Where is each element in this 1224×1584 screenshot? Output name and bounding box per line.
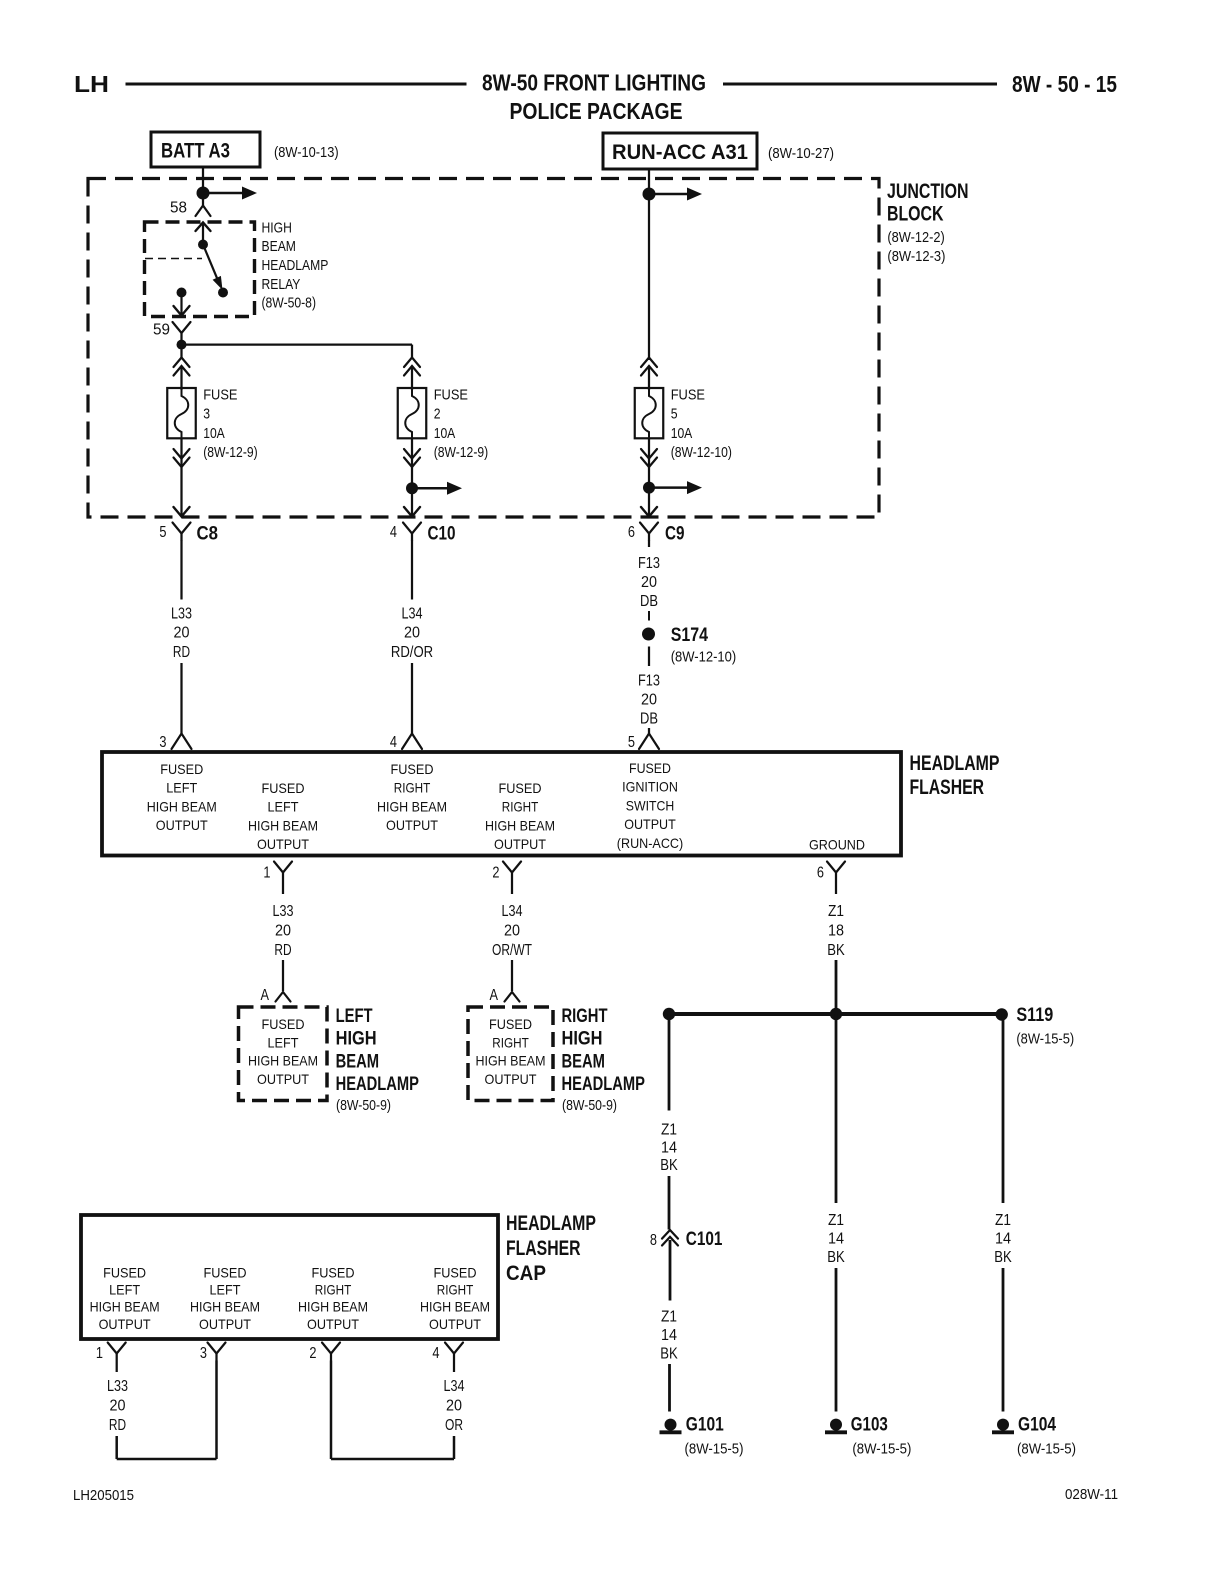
svg-text:FLASHER: FLASHER (506, 1237, 581, 1260)
header page number (1012, 71, 1117, 97)
wire label F13 20 DB upper (638, 555, 660, 610)
flasher pin 2 (492, 862, 521, 882)
bus dot left (663, 1008, 675, 1020)
svg-text:6: 6 (817, 865, 824, 882)
svg-text:20: 20 (446, 1398, 462, 1415)
svg-text:20: 20 (275, 923, 291, 940)
wire down to fuse 3 (180, 345, 182, 359)
right headlamp dashed box (468, 1007, 553, 1101)
svg-text:OUTPUT: OUTPUT (257, 836, 309, 852)
svg-text:5: 5 (628, 734, 635, 751)
cap pin 4 (432, 1343, 463, 1363)
svg-text:HIGH BEAM: HIGH BEAM (420, 1299, 490, 1315)
footer drawing number (1065, 1486, 1118, 1503)
svg-text:10A: 10A (434, 425, 456, 442)
svg-text:HIGH BEAM: HIGH BEAM (248, 817, 318, 833)
svg-text:4: 4 (390, 524, 397, 541)
header rule left (126, 83, 467, 86)
svg-text:A: A (261, 987, 270, 1004)
wire above S174 (648, 611, 650, 621)
wire chevrons to fuse 3 (180, 367, 182, 391)
svg-text:FUSED: FUSED (262, 780, 305, 796)
wire C8 down (180, 540, 182, 600)
svg-text:L34: L34 (444, 1378, 465, 1395)
header rule right (723, 83, 997, 86)
svg-text:OUTPUT: OUTPUT (494, 836, 546, 852)
cap pin 2 (309, 1343, 340, 1363)
wire pin6 down (835, 880, 837, 895)
wire label L33 20 RD lower (273, 903, 294, 959)
svg-text:DB: DB (640, 711, 658, 728)
svg-text:8W-50 FRONT LIGHTING: 8W-50 FRONT LIGHTING (482, 70, 706, 96)
svg-text:HIGH BEAM: HIGH BEAM (377, 798, 447, 814)
svg-text:(8W-12-9): (8W-12-9) (434, 444, 489, 461)
svg-text:59: 59 (153, 322, 170, 339)
wire to G104 (1002, 1268, 1005, 1412)
cap wire pin4 upper (453, 1361, 455, 1373)
svg-text:HIGH: HIGH (562, 1029, 603, 1050)
wire C9 down (648, 540, 650, 547)
svg-text:BK: BK (827, 942, 845, 959)
wire label Z1 14 BK lower left (660, 1309, 678, 1363)
svg-text:HIGH BEAM: HIGH BEAM (485, 817, 555, 833)
relay output pin dot (177, 288, 187, 298)
arrow feed at C9 (649, 481, 702, 494)
junction block dashed outline (88, 179, 879, 518)
wire label L34 20 RD/OR (391, 606, 433, 661)
svg-text:(8W-50-9): (8W-50-9) (562, 1097, 617, 1114)
arrow feed other circuits top left (203, 187, 257, 200)
wire BATT A3 to node 58 (202, 167, 204, 206)
flasher pin1 label (248, 780, 318, 852)
headlamp flasher cap label (506, 1212, 596, 1285)
pin 58 connector (196, 206, 211, 217)
svg-text:LH205015: LH205015 (73, 1487, 134, 1504)
svg-text:LH: LH (74, 71, 109, 97)
svg-text:CAP: CAP (506, 1262, 546, 1285)
wire label Z1 14 BK right (994, 1212, 1012, 1266)
svg-text:OUTPUT: OUTPUT (199, 1316, 251, 1332)
svg-text:G101: G101 (686, 1414, 724, 1435)
svg-text:L34: L34 (502, 903, 523, 920)
cap jumper 1-3 horizontal (117, 1458, 217, 1461)
svg-text:A: A (490, 987, 499, 1004)
wire to C101 (668, 1176, 671, 1230)
wire fuse5 to C9 (641, 467, 657, 517)
svg-text:028W-11: 028W-11 (1065, 1486, 1118, 1503)
cap pin1 label (90, 1264, 160, 1332)
relay common contact dot (198, 240, 208, 250)
ground bus S119 (669, 1012, 1003, 1016)
node junction dot at 58 (197, 187, 210, 200)
svg-text:8W - 50 - 15: 8W - 50 - 15 (1012, 71, 1117, 97)
headlamp flasher box (102, 752, 901, 856)
wire label L33 20 RD (171, 606, 192, 661)
svg-text:(8W-15-5): (8W-15-5) (1016, 1031, 1074, 1048)
svg-text:FUSE: FUSE (203, 386, 237, 403)
node junction dot RUN-ACC (643, 188, 656, 201)
wire 59 junction horizontal (182, 343, 413, 345)
svg-text:L33: L33 (107, 1378, 128, 1395)
svg-text:RIGHT: RIGHT (315, 1282, 352, 1298)
wire pin6 to bus (835, 960, 838, 1014)
pin 4 connector (390, 734, 422, 752)
svg-text:DB: DB (640, 593, 658, 610)
wire continuation chevrons below fuse 2 (404, 449, 420, 467)
left headlamp dashed box (239, 1007, 328, 1101)
wire C10 down (411, 540, 413, 600)
svg-text:RELAY: RELAY (262, 276, 301, 293)
svg-text:FUSED: FUSED (434, 1264, 477, 1280)
pin 3 connector (159, 734, 191, 752)
wire chevrons to fuse 2 (411, 367, 413, 391)
svg-text:G103: G103 (851, 1414, 888, 1435)
svg-text:BEAM: BEAM (262, 238, 296, 255)
power feed box BATT A3 (151, 132, 260, 167)
svg-text:(8W-12-10): (8W-12-10) (671, 649, 737, 666)
wire bus down middle (835, 1014, 838, 1203)
wire continuation chevrons below fuse 5 (641, 449, 657, 467)
wire label Z1 18 BK (827, 903, 845, 959)
svg-text:Z1: Z1 (661, 1122, 677, 1139)
right headlamp box label (476, 1016, 546, 1087)
svg-text:HEADLAMP: HEADLAMP (506, 1212, 596, 1235)
reference (8W-10-13) (274, 144, 339, 161)
cap pin2 label (298, 1264, 368, 1332)
svg-text:FUSED: FUSED (499, 780, 542, 796)
svg-text:HIGH: HIGH (336, 1029, 377, 1050)
svg-text:Z1: Z1 (661, 1309, 677, 1326)
svg-text:14: 14 (661, 1139, 677, 1156)
bus dot middle (830, 1008, 842, 1020)
svg-text:Z1: Z1 (995, 1212, 1011, 1229)
wire RUN-ACC down (648, 169, 650, 360)
svg-text:HEADLAMP: HEADLAMP (910, 752, 1000, 775)
wire to left headlamp (282, 960, 284, 991)
relay dashed box (145, 222, 255, 317)
wire bus down left (668, 1014, 671, 1111)
wire label Z1 14 BK upper left (660, 1122, 678, 1175)
pin 58 label (170, 200, 187, 217)
arrow feed other circuits RUN (649, 188, 702, 201)
svg-text:C10: C10 (428, 524, 456, 545)
svg-text:(8W-10-13): (8W-10-13) (274, 144, 339, 161)
svg-text:20: 20 (641, 692, 657, 709)
svg-text:4: 4 (390, 734, 397, 751)
svg-text:OUTPUT: OUTPUT (156, 817, 208, 833)
cap pin4 label (420, 1264, 490, 1332)
svg-text:(8W-12-2): (8W-12-2) (887, 229, 944, 246)
svg-text:OUTPUT: OUTPUT (257, 1071, 309, 1087)
svg-text:RIGHT: RIGHT (437, 1282, 474, 1298)
svg-text:4: 4 (432, 1345, 439, 1362)
node dot above C10 (406, 482, 418, 494)
footer sheet code (73, 1487, 134, 1504)
svg-text:3: 3 (159, 734, 166, 751)
header title line 1 (482, 70, 706, 96)
wire chevrons to fuse 5 (648, 367, 650, 391)
headlamp flasher cap box (81, 1215, 498, 1339)
svg-text:RIGHT: RIGHT (502, 799, 539, 815)
flasher pin 1 (263, 862, 292, 882)
svg-text:BLOCK: BLOCK (887, 203, 944, 226)
svg-text:POLICE PACKAGE: POLICE PACKAGE (510, 98, 683, 124)
fuse F5 (635, 388, 664, 438)
svg-text:5: 5 (671, 406, 678, 423)
ground G103 (825, 1414, 911, 1457)
svg-text:FUSED: FUSED (629, 760, 671, 776)
left headlamp box label (248, 1016, 318, 1087)
cap wire pin2 (330, 1361, 333, 1460)
svg-text:HEADLAMP: HEADLAMP (562, 1074, 646, 1095)
connector C101 (650, 1229, 723, 1250)
svg-text:8: 8 (650, 1232, 657, 1249)
svg-text:(8W-50-9): (8W-50-9) (336, 1097, 391, 1114)
wire C8 to pin 3 (180, 663, 182, 734)
flasher pin 6 (817, 862, 845, 882)
ground G104 (992, 1414, 1076, 1457)
svg-text:BEAM: BEAM (562, 1051, 606, 1072)
svg-text:L33: L33 (171, 606, 192, 623)
svg-text:6: 6 (628, 524, 635, 541)
svg-text:(8W-10-27): (8W-10-27) (768, 145, 834, 162)
svg-text:LEFT: LEFT (166, 780, 197, 796)
svg-text:BEAM: BEAM (336, 1051, 380, 1072)
svg-text:14: 14 (661, 1327, 677, 1344)
svg-text:HIGH BEAM: HIGH BEAM (90, 1299, 160, 1315)
left headlamp title (336, 1006, 420, 1114)
svg-text:HIGH BEAM: HIGH BEAM (298, 1299, 368, 1315)
ground G101 (660, 1414, 744, 1457)
svg-text:OUTPUT: OUTPUT (307, 1316, 359, 1332)
svg-text:HEADLAMP: HEADLAMP (336, 1074, 420, 1095)
wire continuation chevrons below fuse 3 (174, 449, 190, 467)
relay coil divider dashed (145, 258, 202, 260)
splice label S119 (1016, 1005, 1074, 1048)
wire to G101 (668, 1364, 671, 1412)
fuse 3 label (203, 386, 258, 461)
wire label Z1 14 BK middle (827, 1212, 845, 1266)
fuse 5 label (671, 386, 732, 461)
svg-text:(8W-12-3): (8W-12-3) (887, 248, 945, 265)
arrow feed at C10 (412, 482, 462, 495)
svg-text:HIGH BEAM: HIGH BEAM (476, 1053, 546, 1069)
svg-text:FUSED: FUSED (160, 761, 203, 777)
cap pin 3 (200, 1343, 226, 1363)
pin 5 connector (628, 734, 659, 752)
svg-text:SWITCH: SWITCH (626, 797, 674, 813)
fuse 2 label (434, 386, 489, 461)
wire to right headlamp (511, 960, 513, 991)
svg-text:RUN-ACC A31: RUN-ACC A31 (612, 141, 748, 164)
flasher pin5 label (617, 760, 683, 851)
wire fuse3 to C8 (174, 467, 190, 517)
svg-text:14: 14 (828, 1231, 844, 1248)
svg-text:10A: 10A (203, 425, 225, 442)
node dot at 59 (177, 340, 187, 350)
connector C8 (159, 523, 218, 545)
svg-text:BK: BK (660, 1346, 678, 1363)
svg-text:14: 14 (995, 1231, 1011, 1248)
svg-text:RIGHT: RIGHT (562, 1006, 608, 1027)
wire below C101 (669, 1240, 672, 1301)
svg-text:OUTPUT: OUTPUT (386, 817, 438, 833)
splice S174 (642, 625, 736, 666)
pin 59 label (153, 322, 170, 339)
svg-text:OR/WT: OR/WT (492, 942, 532, 959)
svg-text:HEADLAMP: HEADLAMP (262, 257, 329, 274)
svg-text:20: 20 (504, 923, 520, 940)
svg-text:OUTPUT: OUTPUT (485, 1071, 537, 1087)
svg-text:F13: F13 (638, 673, 660, 690)
svg-text:BK: BK (660, 1157, 678, 1174)
svg-text:FUSED: FUSED (391, 761, 434, 777)
cap wire pin1 down (116, 1361, 118, 1373)
svg-text:10A: 10A (671, 425, 693, 442)
wire below fuse 2 (411, 438, 413, 467)
wire pin2 down (511, 880, 513, 895)
wire to G103 (835, 1268, 838, 1412)
svg-text:RD: RD (173, 644, 190, 661)
svg-text:L34: L34 (402, 606, 423, 623)
svg-text:2: 2 (492, 865, 499, 882)
wire bus down right (1002, 1014, 1005, 1203)
svg-text:BK: BK (994, 1249, 1012, 1266)
svg-text:LEFT: LEFT (268, 1034, 299, 1050)
pin 59 connector (173, 322, 191, 340)
svg-text:58: 58 (170, 200, 187, 217)
wire continuation chevrons above fuse 5 (641, 358, 657, 376)
wire label F13 20 DB lower (638, 673, 660, 728)
wire fuse2 to C10 (404, 467, 420, 517)
flasher pin3 label (147, 761, 217, 833)
relay NO contact dot (218, 288, 228, 298)
wire below S174 (648, 647, 650, 667)
cap wire pin3 (215, 1361, 218, 1460)
svg-text:F13: F13 (638, 555, 660, 572)
cap wire pin4 lower (453, 1436, 456, 1459)
svg-text:(8W-15-5): (8W-15-5) (685, 1441, 744, 1458)
svg-text:3: 3 (200, 1345, 207, 1362)
svg-text:JUNCTION: JUNCTION (887, 180, 969, 203)
svg-text:20: 20 (641, 574, 657, 591)
right headlamp title (562, 1006, 646, 1114)
connector C9 (628, 523, 685, 545)
fuse F3 (167, 388, 196, 438)
svg-text:G104: G104 (1018, 1414, 1056, 1435)
svg-text:OUTPUT: OUTPUT (624, 816, 676, 832)
svg-text:FUSED: FUSED (312, 1264, 355, 1280)
junction block label (887, 180, 969, 265)
cap jumper 2-4 horizontal (331, 1458, 454, 1461)
svg-text:OR: OR (445, 1417, 463, 1434)
svg-text:C101: C101 (686, 1229, 723, 1250)
svg-text:FUSE: FUSE (671, 386, 705, 403)
svg-text:LEFT: LEFT (210, 1282, 241, 1298)
svg-text:RD/OR: RD/OR (391, 644, 433, 661)
svg-text:L33: L33 (273, 903, 294, 920)
svg-text:FUSE: FUSE (434, 386, 468, 403)
svg-text:20: 20 (110, 1398, 126, 1415)
relay pin arrow up (196, 223, 211, 245)
flasher ground label (809, 837, 865, 853)
fuse F2 (398, 388, 427, 438)
relay output arrow down (174, 293, 190, 316)
svg-text:RD: RD (274, 942, 291, 959)
svg-text:RIGHT: RIGHT (492, 1034, 529, 1050)
svg-text:Z1: Z1 (828, 1212, 844, 1229)
power feed box RUN-ACC A31 (603, 133, 757, 169)
relay label HIGH BEAM HEADLAMP RELAY (262, 219, 329, 311)
cap wire pin1 lower (115, 1436, 118, 1459)
svg-text:BATT A3: BATT A3 (161, 140, 230, 163)
svg-text:S119: S119 (1016, 1005, 1053, 1026)
svg-text:20: 20 (404, 625, 420, 642)
svg-text:RIGHT: RIGHT (394, 780, 431, 796)
wire C10 to pin 4 (411, 663, 413, 734)
svg-text:3: 3 (203, 406, 210, 423)
header label LH (74, 71, 109, 97)
svg-text:2: 2 (434, 406, 441, 423)
svg-text:LEFT: LEFT (336, 1006, 373, 1027)
relay switch blade (203, 245, 223, 291)
wire below fuse 3 (180, 438, 182, 467)
svg-text:LEFT: LEFT (268, 799, 299, 815)
pin A right (490, 987, 520, 1004)
wire to pin 5 (648, 728, 650, 734)
svg-text:18: 18 (828, 923, 844, 940)
svg-text:HIGH BEAM: HIGH BEAM (190, 1299, 260, 1315)
svg-text:FLASHER: FLASHER (910, 776, 985, 799)
svg-text:C8: C8 (197, 524, 219, 545)
node dot above C9 (643, 482, 655, 494)
headlamp flasher label (910, 752, 1000, 799)
svg-text:(RUN-ACC): (RUN-ACC) (617, 835, 683, 851)
svg-text:C9: C9 (665, 524, 685, 545)
connector C10 (390, 523, 456, 545)
wire label L34 20 OR/WT (492, 903, 532, 959)
svg-text:OUTPUT: OUTPUT (429, 1316, 481, 1332)
svg-text:S174: S174 (671, 625, 709, 646)
svg-text:20: 20 (174, 625, 190, 642)
svg-text:OUTPUT: OUTPUT (99, 1316, 151, 1332)
svg-text:BK: BK (827, 1249, 845, 1266)
svg-text:FUSED: FUSED (489, 1016, 532, 1032)
svg-text:(8W-15-5): (8W-15-5) (1017, 1441, 1076, 1458)
cap pin3 label (190, 1264, 260, 1332)
pin A left (261, 987, 291, 1004)
svg-text:(8W-50-8): (8W-50-8) (262, 295, 317, 312)
svg-text:IGNITION: IGNITION (622, 779, 678, 795)
header title line 2 (510, 98, 683, 124)
svg-text:2: 2 (309, 1345, 316, 1362)
svg-text:HIGH BEAM: HIGH BEAM (147, 798, 217, 814)
svg-text:Z1: Z1 (828, 903, 844, 920)
wire continuation chevrons above fuse 2 (404, 358, 420, 376)
cap wire label L34 20 OR (444, 1378, 465, 1434)
svg-text:(8W-12-9): (8W-12-9) (203, 444, 258, 461)
svg-text:LEFT: LEFT (109, 1282, 140, 1298)
wire pin1 down (282, 880, 284, 895)
svg-text:HIGH: HIGH (262, 219, 292, 236)
cap pin 1 (96, 1343, 126, 1363)
svg-text:RD: RD (109, 1417, 126, 1434)
wire continuation chevrons above fuse 3 (174, 358, 190, 376)
reference (8W-10-27) (768, 145, 834, 162)
svg-text:FUSED: FUSED (103, 1264, 146, 1280)
svg-text:FUSED: FUSED (204, 1264, 247, 1280)
svg-text:GROUND: GROUND (809, 837, 865, 853)
